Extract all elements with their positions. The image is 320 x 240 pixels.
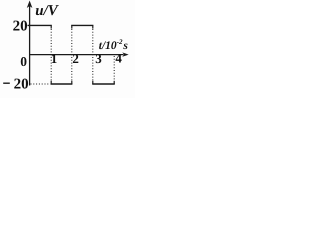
dotted vertical at t=1	[50, 29, 52, 81]
corner stub up at t=1 low	[50, 81, 52, 84]
svg-text:20: 20	[14, 76, 29, 92]
corner stub up at t=4 low	[113, 81, 115, 84]
square wave: high segment 0-1 (+20)	[28, 24, 52, 26]
x-axis arrowhead	[122, 52, 128, 56]
corner stub up at t=2 low	[71, 81, 73, 84]
dotted vertical at t=2	[71, 29, 73, 81]
minus sign of -20	[3, 82, 10, 84]
square wave: low segment 1-2 (-20)	[51, 83, 73, 85]
svg-text:4: 4	[115, 51, 122, 66]
y-axis	[29, 4, 31, 86]
square wave: low segment 3-4 (-20)	[92, 83, 115, 85]
dotted vertical at t=3	[92, 29, 94, 81]
dotted vertical at t=4	[113, 56, 115, 81]
corner stub down at t=1	[50, 25, 52, 28]
corner stub up at t=3 low	[92, 81, 94, 84]
corner stub down at t=3 high	[92, 25, 94, 28]
corner stub down at t=2 high	[71, 25, 73, 28]
x-axis	[29, 54, 124, 56]
svg-text:3: 3	[95, 51, 102, 66]
dotted -20 reference line	[31, 83, 50, 85]
svg-text:1: 1	[51, 51, 58, 66]
svg-text:20: 20	[13, 19, 28, 35]
background	[0, 0, 135, 98]
svg-text:t/10-2s: t/10-2s	[99, 38, 129, 52]
square wave: high segment 2-3 (+20)	[71, 24, 93, 26]
svg-text:u/V: u/V	[35, 3, 60, 19]
y-axis arrowhead	[27, 1, 33, 9]
square-wave voltage vs time graph	[0, 0, 135, 98]
svg-text:2: 2	[72, 51, 79, 66]
svg-text:0: 0	[20, 54, 27, 69]
